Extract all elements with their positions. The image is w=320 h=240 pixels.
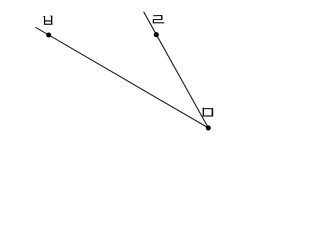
node R dot (point ㄹ) [154,32,159,37]
label ㅂ (point B) [43,16,52,25]
node M dot (point ㅁ) [206,125,211,130]
wire line R-M (from beyond point ㄹ to point ㅁ) [144,12,209,128]
node B dot (point ㅂ) [46,32,51,37]
label ㄹ (point R) [153,15,164,23]
wire line B-M (from beyond point ㅂ to point ㅁ) [35,27,208,128]
label ㅁ (point M) [203,108,214,117]
